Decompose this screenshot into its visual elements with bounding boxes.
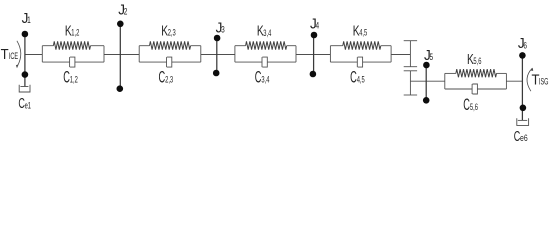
wire: J5 to block K56 — [426, 80, 445, 82]
label J1 — [22, 10, 32, 27]
parallel frame K5,6/C5,6 — [445, 73, 507, 89]
node J3 top — [214, 35, 221, 42]
label K4,5 — [353, 21, 367, 39]
label C4,5 — [350, 68, 365, 86]
label K1,2 — [65, 21, 79, 39]
parallel frame K3,4/C3,4 — [235, 46, 296, 62]
svg-text:e1: e1 — [25, 100, 31, 111]
damper C1,2 — [70, 57, 75, 67]
damper C4,5 — [357, 57, 362, 67]
inertia J4 shaft line — [313, 35, 315, 74]
svg-text:2,3: 2,3 — [165, 74, 173, 85]
parallel frame K1,2/C1,2 — [42, 46, 104, 62]
damper Ce6 (ISG-side ground damper) — [517, 118, 529, 125]
label K2,3 — [161, 21, 175, 39]
wire: J4 to block K45 — [314, 54, 331, 56]
svg-text:ICE: ICE — [9, 51, 18, 62]
node J5 top — [423, 62, 430, 69]
label C1,2 — [63, 68, 78, 86]
spring K3,4 — [246, 41, 287, 49]
label T_ISG — [532, 72, 549, 89]
label C2,3 — [159, 68, 174, 86]
svg-text:2: 2 — [124, 6, 128, 16]
node J5 bottom — [423, 97, 430, 104]
label J4 — [310, 16, 320, 33]
label C3,4 — [255, 68, 270, 86]
node J2 bottom — [117, 85, 124, 92]
damper C2,3 — [167, 57, 172, 67]
wire: block K45 to gear — [391, 54, 410, 56]
svg-text:4: 4 — [316, 20, 320, 30]
gear stage lower wheel — [404, 71, 417, 95]
inertia J1 shaft line — [24, 34, 26, 87]
label K5,6 — [467, 50, 481, 68]
spring K1,2 — [53, 41, 90, 49]
spring K2,3 — [150, 41, 191, 49]
svg-text:ISG: ISG — [539, 76, 549, 87]
gear stage upper wheel — [404, 41, 417, 67]
svg-text:4,5: 4,5 — [359, 27, 367, 38]
wire: block K12 to J2 — [104, 54, 120, 56]
label Ce6 — [514, 128, 528, 145]
node J4 bottom — [310, 71, 317, 78]
label K3,4 — [257, 22, 271, 40]
svg-text:3: 3 — [221, 24, 225, 34]
label Ce1 — [18, 95, 31, 112]
label J5 — [424, 47, 434, 64]
svg-text:5,6: 5,6 — [470, 102, 478, 113]
parallel frame K4,5/C4,5 — [330, 46, 391, 62]
node J2 top — [117, 21, 124, 28]
node J1 bottom — [22, 71, 29, 78]
svg-text:1: 1 — [27, 15, 31, 25]
damper Ce1 (engine-side ground damper) — [19, 85, 30, 92]
node J6 bottom — [520, 105, 527, 112]
svg-text:C: C — [18, 95, 25, 112]
inertia J6 shaft line — [521, 55, 523, 120]
node J3 bottom — [213, 70, 220, 77]
wire: J2 to block K23 — [120, 54, 139, 56]
svg-text:1,2: 1,2 — [70, 74, 78, 85]
wire: J3 to block K34 — [217, 54, 235, 56]
node J4 top — [311, 32, 318, 39]
inertia J3 shaft line — [216, 38, 218, 73]
label C5,6 — [463, 95, 478, 113]
svg-text:5,6: 5,6 — [473, 56, 481, 67]
svg-text:3,4: 3,4 — [261, 74, 269, 85]
svg-text:T: T — [1, 46, 9, 63]
inertia J5 shaft line — [425, 65, 427, 100]
svg-text:6: 6 — [523, 40, 527, 50]
label J6 — [518, 36, 528, 53]
svg-text:2,3: 2,3 — [168, 27, 176, 38]
svg-text:4,5: 4,5 — [357, 74, 365, 85]
torque arrow T_ICE — [16, 41, 21, 69]
damper C5,6 — [472, 84, 477, 94]
label J3 — [216, 20, 226, 37]
wire: block K23 to J3 — [201, 54, 217, 56]
svg-text:3,4: 3,4 — [263, 28, 271, 39]
spring K4,5 — [343, 41, 381, 49]
spring K5,6 — [456, 69, 497, 77]
wire: shaft J1 to block K12 — [25, 54, 42, 56]
label T_ICE — [1, 46, 18, 63]
inertia J2 shaft line — [119, 24, 121, 89]
svg-text:e6: e6 — [520, 133, 528, 143]
node J1 top — [22, 31, 29, 38]
torque arrow T_ISG — [527, 68, 533, 92]
wire: block K34 to J4 — [296, 54, 314, 56]
damper C3,4 — [262, 57, 267, 67]
parallel frame K2,3/C2,3 — [139, 46, 201, 62]
svg-text:5: 5 — [430, 52, 434, 62]
wire: gear to J5 — [410, 80, 426, 82]
svg-text:1,2: 1,2 — [71, 27, 79, 38]
label J2 — [118, 2, 128, 19]
node J6 top — [519, 52, 526, 59]
wire: block K56 to J6 — [506, 80, 522, 82]
